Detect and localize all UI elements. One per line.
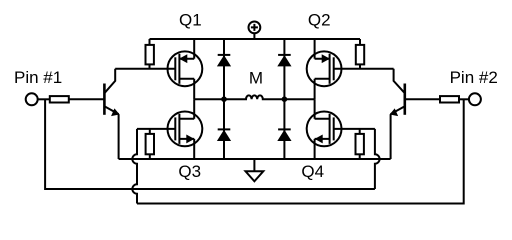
wire Q1 source to motor node: [193, 79, 195, 99]
power supply symbol V+: [249, 22, 261, 40]
wire Q1 gate line: [115, 68, 175, 70]
transistor left NPN: [104, 69, 118, 159]
diode top-right: [278, 55, 291, 66]
diode bottom-left: [218, 129, 231, 140]
svg-text:Pin #1: Pin #1: [14, 68, 62, 87]
wire motor node with inductor M: [194, 95, 314, 99]
mosfet Q1: [168, 51, 203, 86]
Pin #2 terminal: [459, 93, 481, 105]
resistor pull-down left (Q3 gate): [146, 129, 154, 159]
wire Q2 drain to top rail: [314, 39, 316, 59]
mosfet Q2: [307, 51, 342, 86]
wire Q2 source to motor node: [314, 79, 316, 99]
resistor pull-up left (Q1 gate): [146, 39, 154, 69]
ground symbol: [246, 159, 264, 181]
svg-text:Q3: Q3: [178, 162, 201, 181]
svg-text:Pin #2: Pin #2: [450, 68, 498, 87]
svg-text:Q1: Q1: [179, 11, 202, 30]
wire Q1 drain to top rail: [193, 39, 195, 59]
diode top-left: [218, 55, 231, 66]
wire Q2 gate line: [334, 68, 394, 70]
resistor pull-up right (Q2 gate): [356, 39, 364, 69]
node right motor junction: [282, 96, 288, 102]
resistor pull-down right (Q4 gate): [356, 129, 364, 159]
wire Pin2 drop to Q3 gate line: [137, 99, 464, 203]
wire Q3 drain to motor node: [193, 99, 195, 119]
Pin #1 terminal: [26, 93, 50, 105]
diode rail right: [283, 39, 285, 159]
diode rail left: [223, 39, 225, 159]
wire Q4 gate drop with hop: [375, 129, 380, 189]
wire Q4 source to ground rail: [314, 139, 316, 159]
wire Q3 source to ground rail: [193, 139, 195, 159]
svg-text:Q2: Q2: [308, 11, 331, 30]
mosfet Q3: [168, 111, 203, 146]
resistor base right (horizontal): [405, 96, 459, 102]
mosfet Q4: [307, 111, 342, 146]
node left motor junction: [221, 96, 227, 102]
svg-text:M: M: [249, 69, 263, 88]
svg-text:Q4: Q4: [301, 162, 324, 181]
wire Pin1 drop to Q4 gate line: [45, 99, 375, 189]
wire Q4 gate line: [334, 128, 375, 130]
transistor right NPN: [391, 69, 405, 159]
wire Q4 drain to motor node: [314, 99, 316, 119]
resistor base left (horizontal): [50, 96, 105, 102]
wire ground rail: [119, 158, 391, 160]
wire Q3 gate line: [137, 128, 175, 130]
diode bottom-right: [278, 129, 291, 140]
wire Q3 gate drop with hops: [132, 129, 137, 204]
wire top supply rail: [150, 38, 361, 40]
